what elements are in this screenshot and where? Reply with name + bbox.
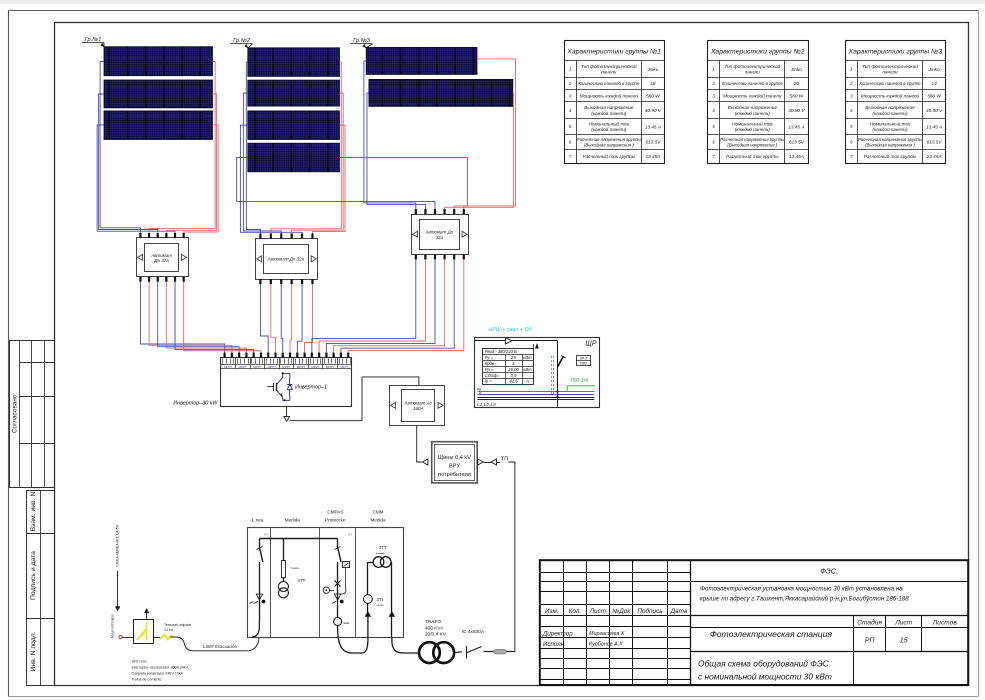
svg-text:IC 4x630A: IC 4x630A (462, 629, 485, 635)
svg-text:MPPT: MPPT (268, 365, 277, 369)
svg-text:20: 20 (793, 81, 800, 86)
svg-text:(каждой панели): (каждой панели) (872, 126, 907, 132)
svg-text:613.5V: 613.5V (645, 140, 661, 145)
svg-text:CMM: CMM (373, 510, 384, 515)
svg-text:крыше по адресу г.Ташкент,Якка: крыше по адресу г.Ташкент,Яккасарайский … (700, 596, 909, 603)
svg-text:Взам. инв. N: Взам. инв. N (30, 492, 37, 532)
svg-text:160А: 160А (413, 406, 424, 411)
svg-text:MPPT: MPPT (340, 365, 349, 369)
svg-text:Исполн.: Исполн. (543, 641, 566, 648)
svg-text:3TI: 3TI (377, 597, 383, 602)
svg-text:(каждой панели): (каждой панели) (591, 110, 626, 116)
svg-text:Расчетная напряжения группы: Расчетная напряжения группы (577, 137, 642, 142)
svg-text:Инвертор–30 kW: Инвертор–30 kW (173, 401, 218, 407)
svg-text:Подпись: Подпись (637, 607, 662, 615)
svg-text:Apoyo entronque: Apoyo entronque (111, 614, 115, 639)
svg-text:Jinko: Jinko (928, 67, 940, 72)
svg-text:Подпись и дата: Подпись и дата (30, 551, 37, 600)
svg-text:Фотоэлектрическая станция: Фотоэлектрическая станция (710, 629, 833, 639)
svg-text:COSф=: COSф= (485, 373, 501, 378)
svg-text:MPPT: MPPT (297, 365, 306, 369)
svg-text:Характеристики группы №3: Характеристики группы №3 (848, 48, 943, 55)
svg-text:3TT: 3TT (379, 545, 387, 550)
svg-text:Автомат Ас: Автомат Ас (404, 401, 433, 406)
svg-text:Conjunto pararrayos 24KV 10kA: Conjunto pararrayos 24KV 10kA (132, 672, 184, 676)
svg-text:MPPT: MPPT (253, 365, 262, 369)
svg-text:панели: панели (745, 70, 761, 75)
svg-text:ВРУ: ВРУ (449, 464, 460, 470)
svg-text:25,00: 25,00 (507, 367, 519, 372)
svg-text:40.90 V: 40.90 V (788, 108, 805, 113)
svg-text:Medida: Medida (370, 518, 386, 523)
svg-text:Расчетный ток группы: Расчетный ток группы (726, 153, 779, 159)
svg-text:(Выходная напряжения ): (Выходная напряжения ) (727, 143, 777, 148)
svg-text:2: 2 (711, 81, 715, 86)
svg-text:панели: панели (601, 70, 617, 75)
svg-text:580 W: 580 W (790, 93, 804, 98)
svg-text:Выходная напряжение: Выходная напряжение (728, 105, 778, 110)
svg-text:Мощность каждой панели: Мощность каждой панели (861, 92, 920, 98)
svg-text:Protecci n: Protecci n (325, 518, 346, 523)
svg-text:Согласовано:: Согласовано: (12, 393, 19, 433)
svg-text:ФЭС.: ФЭС. (820, 569, 837, 576)
svg-text:кВт: кВт (523, 367, 532, 372)
svg-text:N: N (479, 391, 482, 395)
svg-text:613.5V: 613.5V (927, 140, 943, 145)
svg-text:ПВ3: ПВ3 (580, 362, 588, 366)
svg-text:Номинальный ток: Номинальный ток (870, 120, 911, 126)
svg-text:Количество панелей в группе: Количество панелей в группе (859, 81, 921, 86)
svg-text:Iр =: Iр = (485, 379, 493, 384)
svg-text:18: 18 (650, 81, 656, 86)
svg-text:РП: РП (865, 638, 876, 645)
svg-text:Директор: Директор (542, 631, 573, 638)
svg-text:потребителя: потребителя (438, 472, 471, 478)
svg-text:Щины 0,4 kV: Щины 0,4 kV (438, 455, 471, 461)
svg-text:Выходная напряжение: Выходная напряжение (584, 105, 634, 110)
svg-text:Стадия: Стадия (857, 619, 882, 627)
svg-text:13.45А: 13.45А (645, 154, 660, 159)
svg-text:14: 14 (931, 81, 937, 86)
svg-text:панели: панели (882, 70, 898, 75)
svg-text:кВт: кВт (523, 355, 532, 360)
svg-text:TRAFO: TRAFO (425, 619, 442, 625)
svg-text:Рр =: Рр = (485, 367, 494, 372)
svg-text:Крдв=: Крдв= (485, 361, 497, 366)
svg-text:◄▬▬▬: ◄▬▬▬ (375, 552, 385, 555)
svg-text:Расчетный ток группы: Расчетный ток группы (864, 153, 917, 159)
svg-text:Общая схема оборудований ФЭС: Общая схема оборудований ФЭС (698, 659, 830, 669)
svg-text:Interruptor–seccionador 200A 2: Interruptor–seccionador 200A 24kV (132, 666, 189, 670)
svg-text:Ру =: Ру = (485, 355, 494, 360)
svg-text:32а: 32а (436, 235, 444, 240)
svg-text:20/0,4 KV: 20/0,4 KV (425, 632, 447, 638)
svg-text:▬▬▬: ▬▬▬ (377, 604, 385, 607)
svg-text:Лист: Лист (589, 608, 607, 615)
svg-text:15: 15 (900, 638, 908, 645)
svg-text:3TT: 3TT (298, 578, 306, 583)
svg-text:MPPT: MPPT (224, 365, 233, 369)
svg-text:13.45 А: 13.45 А (645, 124, 661, 129)
svg-text:Инв. N подл.: Инв. N подл. (30, 631, 37, 671)
svg-text:№Док: №Док (612, 608, 631, 615)
svg-text:40.90 V: 40.90 V (926, 108, 943, 113)
svg-text:LINEA AEREA M.T. LA-56: LINEA AEREA M.T. LA-56 (116, 525, 120, 566)
svg-text:Выходная напряжение: Выходная напряжение (865, 105, 915, 110)
svg-text:Мощность каждой панели: Мощность каждой панели (723, 92, 782, 98)
svg-text:(Выходная напряжения ): (Выходная напряжения ) (865, 143, 915, 148)
svg-text:3Р 1: 3Р 1 (579, 356, 587, 360)
svg-text:Тип фотоэлектрической: Тип фотоэлектрической (581, 63, 637, 69)
svg-text:Рвод –380/220 В: Рвод –380/220 В (485, 349, 517, 354)
svg-text:24 kV: 24 kV (164, 628, 174, 632)
svg-text:13.45А: 13.45А (789, 154, 804, 159)
svg-text:с номинальной мощности 30 кВт: с номинальной мощности 30 кВт (698, 672, 832, 682)
svg-text:(каждой панели): (каждой панели) (735, 110, 770, 116)
svg-text:13.45А: 13.45А (927, 154, 942, 159)
svg-text:MPPT: MPPT (239, 365, 248, 369)
svg-text:Terminal unipolar: Terminal unipolar (164, 623, 192, 627)
svg-text:CMPAS: CMPAS (327, 510, 343, 515)
svg-text:Тип фотоэлектрической: Тип фотоэлектрической (724, 63, 780, 69)
svg-text:580 W: 580 W (927, 93, 941, 98)
svg-text:(каждой панели): (каждой панели) (735, 126, 770, 132)
svg-text:А: А (525, 379, 529, 384)
svg-text:B05: B05 (348, 533, 353, 537)
svg-text:42,5: 42,5 (509, 379, 518, 384)
svg-text:Курбонов А.Х: Курбонов А.Х (589, 642, 623, 648)
svg-text:(каждой панели): (каждой панели) (872, 110, 907, 116)
svg-text:ПВ3 1х6: ПВ3 1х6 (571, 377, 589, 382)
svg-text:0,9: 0,9 (511, 373, 517, 378)
svg-text:Jinko: Jinko (790, 67, 802, 72)
svg-text:MPPT: MPPT (326, 365, 335, 369)
svg-text:Листов: Листов (932, 620, 958, 627)
svg-text:Тип фотоэлектрической: Тип фотоэлектрической (862, 63, 918, 69)
svg-text:MPPT: MPPT (282, 365, 291, 369)
svg-text:Лист: Лист (894, 620, 912, 627)
svg-text:Medida: Medida (285, 518, 301, 523)
svg-text:400 KVA: 400 KVA (425, 626, 444, 632)
svg-text:НРЩ + свар + Об: НРЩ + свар + Об (488, 327, 532, 333)
svg-text:LSMT Evacuación: LSMT Evacuación (203, 644, 238, 649)
svg-text:Автомат До 32а: Автомат До 32а (267, 257, 305, 262)
svg-text:Фотоэлектрическая установка мо: Фотоэлектрическая установка мощностью 30… (700, 586, 903, 593)
svg-text:Trafos de corriente: Trafos de corriente (132, 678, 162, 682)
svg-text:Характеристики группы №1: Характеристики группы №1 (566, 48, 661, 55)
svg-text:Мощность каждой панели: Мощность каждой панели (580, 92, 639, 98)
svg-text:Расчетная напряжения группы: Расчетная напряжения группы (858, 137, 923, 142)
svg-text:Инвертор–1: Инвертор–1 (295, 385, 327, 391)
svg-text:(каждой панели): (каждой панели) (591, 126, 626, 132)
svg-text:Характеристики группы №2: Характеристики группы №2 (710, 48, 805, 55)
svg-text:B05: B05 (264, 533, 269, 537)
svg-text:Jinko: Jinko (646, 67, 658, 72)
svg-text:Кол.: Кол. (569, 608, 582, 615)
svg-text:1: 1 (512, 361, 514, 366)
svg-text:L1,L2,L3: L1,L2,L3 (477, 402, 496, 408)
svg-text:25: 25 (510, 355, 516, 360)
svg-text:Количество панелей в группе: Количество панелей в группе (722, 81, 784, 86)
svg-text:Мирзасолев Х: Мирзасолев Х (589, 631, 625, 637)
svg-text:Дата: Дата (670, 608, 688, 615)
svg-text:Номинальный ток: Номинальный ток (732, 120, 773, 126)
svg-text:2: 2 (568, 81, 572, 86)
svg-text:▬▬: ▬▬ (344, 621, 350, 625)
svg-text:13.45 А: 13.45 А (788, 124, 804, 129)
svg-text:13.45 А: 13.45 А (926, 124, 942, 129)
svg-text:580 W: 580 W (646, 93, 660, 98)
svg-text:2: 2 (849, 81, 853, 86)
svg-text:◄▬▬▬: ◄▬▬▬ (290, 567, 300, 570)
svg-text:ТП: ТП (501, 457, 508, 463)
svg-text:ЩР: ЩР (585, 341, 596, 348)
svg-text:MPPT: MPPT (311, 365, 320, 369)
svg-text:613.5V: 613.5V (789, 140, 805, 145)
svg-text:Номинальный ток: Номинальный ток (588, 120, 629, 126)
svg-text:До 32а: До 32а (153, 258, 169, 263)
svg-text:Изм.: Изм. (545, 608, 559, 615)
svg-text:40.90 V: 40.90 V (645, 108, 662, 113)
svg-text:(Выходная напряжения ): (Выходная напряжения ) (584, 143, 634, 148)
svg-text:SF6 conc: SF6 conc (132, 660, 147, 664)
svg-text:L nea: L nea (252, 518, 264, 523)
svg-text:Количество панелей в группе: Количество панелей в группе (578, 81, 640, 86)
svg-text:Расчетный ток группы: Расчетный ток группы (583, 153, 636, 159)
svg-text:Расчетная напряжения группы: Расчетная напряжения группы (720, 137, 785, 142)
